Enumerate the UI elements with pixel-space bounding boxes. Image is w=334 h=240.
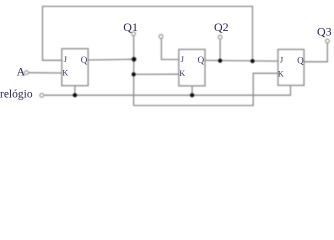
flip-flop U2 box xyxy=(179,49,205,86)
svg-text:K: K xyxy=(278,69,284,78)
terminal Q2 xyxy=(218,35,222,39)
wire Q1 output xyxy=(88,58,134,61)
svg-text:Q2: Q2 xyxy=(214,20,229,34)
wire relogio clock bus xyxy=(44,85,291,95)
svg-text:J: J xyxy=(64,54,68,64)
terminal A xyxy=(25,71,29,75)
terminal node J2 xyxy=(159,35,163,39)
wire Q3 output xyxy=(304,43,327,62)
svg-text:J: J xyxy=(181,54,185,64)
wire Q2 output to J3 xyxy=(205,59,278,62)
wire K2 branch xyxy=(134,73,179,75)
terminal Q3 xyxy=(326,39,330,43)
svg-text:A: A xyxy=(17,65,26,79)
junction Q2 terminal xyxy=(218,59,222,63)
wire Q2 terminal stub xyxy=(219,39,221,61)
wire feedback top (Q2 to J1) xyxy=(43,6,253,61)
terminal Q1 xyxy=(132,32,136,36)
svg-text:J: J xyxy=(280,55,284,65)
svg-text:Q: Q xyxy=(81,55,88,65)
svg-text:Q: Q xyxy=(297,55,304,65)
wire Q1 node vertical down to bottom bus xyxy=(133,36,135,106)
terminal relogio xyxy=(40,93,44,97)
flip-flop U3 box xyxy=(278,49,304,85)
svg-text:K: K xyxy=(179,69,185,78)
svg-text:relógio: relógio xyxy=(0,89,33,101)
wire J2 from terminal xyxy=(161,38,178,59)
wire clock stub FF1 xyxy=(74,86,76,96)
wire clock stub FF2 xyxy=(191,86,193,95)
svg-text:Q1: Q1 xyxy=(123,20,138,34)
junction clock FF2 xyxy=(190,93,194,97)
junction Q1 node xyxy=(132,57,137,62)
wire bottom bus (Q1 to K3) xyxy=(134,73,278,105)
junction K2 branch xyxy=(132,72,136,76)
svg-text:Q3: Q3 xyxy=(317,25,332,39)
svg-text:Q: Q xyxy=(198,55,205,65)
svg-text:K: K xyxy=(62,68,68,77)
wire A to K1 xyxy=(28,72,62,74)
junction feedback tap xyxy=(251,59,255,63)
junction clock FF1 xyxy=(73,93,77,97)
flip-flop U1 box xyxy=(62,49,88,86)
